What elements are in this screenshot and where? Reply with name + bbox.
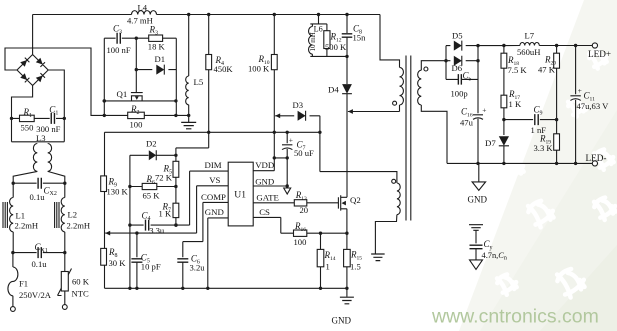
svg-text:D7: D7: [485, 138, 496, 148]
svg-text:4.7 mH: 4.7 mH: [127, 16, 153, 26]
svg-text:DIM: DIM: [205, 160, 222, 170]
svg-text:7.5 K: 7.5 K: [508, 65, 528, 75]
svg-text:100: 100: [130, 120, 143, 130]
svg-text:D1: D1: [155, 54, 166, 64]
svg-text:100 nF: 100 nF: [107, 45, 131, 55]
svg-text:+: +: [289, 135, 293, 144]
svg-text:3.2u: 3.2u: [190, 262, 206, 272]
svg-text:L5: L5: [194, 77, 204, 87]
svg-text:47u: 47u: [460, 117, 474, 127]
svg-text:COMP: COMP: [201, 192, 226, 202]
svg-text:10 mH: 10 mH: [309, 32, 317, 51]
svg-text:60 K: 60 K: [72, 277, 90, 287]
svg-text:130 K: 130 K: [107, 187, 129, 197]
svg-text:L1: L1: [16, 211, 26, 221]
svg-text:3.3u: 3.3u: [149, 225, 165, 235]
svg-text:3.3 K: 3.3 K: [534, 143, 554, 153]
svg-text:47 K: 47 K: [538, 65, 556, 75]
svg-text:L3: L3: [36, 133, 46, 143]
svg-text:1 nF: 1 nF: [531, 125, 547, 135]
svg-text:0.1u: 0.1u: [32, 259, 48, 269]
svg-text:U1: U1: [234, 189, 246, 200]
svg-text:GND: GND: [468, 195, 488, 205]
svg-text:18 K: 18 K: [148, 41, 166, 51]
svg-text:CS: CS: [259, 207, 270, 217]
svg-text:VS: VS: [209, 175, 220, 185]
svg-text:0.1u: 0.1u: [30, 192, 46, 202]
svg-text:L2: L2: [68, 210, 78, 220]
svg-text:Q2: Q2: [350, 195, 361, 205]
svg-text:LED+: LED+: [588, 49, 611, 59]
svg-text:1: 1: [326, 262, 330, 272]
svg-text:Q1: Q1: [117, 89, 128, 99]
svg-text:100: 100: [294, 237, 307, 247]
svg-text:1.5: 1.5: [350, 262, 361, 272]
svg-text:VDD: VDD: [255, 160, 274, 170]
svg-text:1 K: 1 K: [509, 99, 522, 109]
svg-text:72 K: 72 K: [155, 172, 173, 182]
svg-text:2.2mH: 2.2mH: [67, 220, 91, 230]
svg-text:+: +: [482, 105, 486, 114]
svg-text:+: +: [578, 86, 582, 95]
svg-text:GATE: GATE: [256, 193, 278, 203]
svg-text:NTC: NTC: [72, 289, 89, 299]
svg-text:L4: L4: [138, 3, 148, 13]
svg-text:100 K: 100 K: [248, 64, 270, 74]
svg-text:500 K: 500 K: [325, 42, 347, 52]
svg-text:10 pF: 10 pF: [141, 261, 161, 271]
svg-text:www.cntronics.com: www.cntronics.com: [431, 306, 599, 328]
svg-text:30 K: 30 K: [109, 258, 127, 268]
svg-text:50 uF: 50 uF: [294, 148, 314, 158]
svg-text:GND: GND: [205, 207, 224, 217]
svg-text:D2: D2: [146, 139, 157, 149]
svg-text:65 K: 65 K: [143, 190, 161, 200]
svg-text:D3: D3: [293, 100, 304, 110]
svg-text:GND: GND: [332, 316, 352, 326]
svg-text:450K: 450K: [214, 64, 234, 74]
svg-text:560uH: 560uH: [517, 47, 540, 57]
svg-text:15n: 15n: [353, 33, 367, 43]
svg-text:F1: F1: [19, 279, 28, 289]
svg-text:2.2mH: 2.2mH: [15, 220, 39, 230]
svg-text:LED-: LED-: [586, 153, 607, 163]
svg-text:GND: GND: [255, 176, 274, 186]
svg-text:D5: D5: [452, 30, 463, 40]
svg-text:D6: D6: [452, 63, 463, 73]
svg-text:L7: L7: [525, 31, 535, 41]
svg-text:250V/2A: 250V/2A: [19, 290, 52, 300]
svg-text:550: 550: [21, 123, 34, 133]
svg-text:47u,63 V: 47u,63 V: [577, 101, 610, 111]
svg-text:L6: L6: [314, 25, 323, 34]
svg-text:20: 20: [300, 205, 309, 215]
svg-text:1 K: 1 K: [159, 209, 172, 219]
svg-text:100p: 100p: [451, 89, 468, 99]
svg-text:D4: D4: [328, 85, 339, 95]
